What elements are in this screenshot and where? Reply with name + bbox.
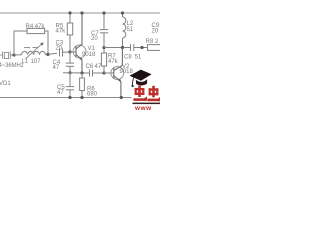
logo underline — [133, 103, 161, 105]
node C8/R8 junction — [140, 46, 143, 49]
capacitor C5 — [66, 73, 74, 98]
svg-text:C8: C8 — [124, 54, 132, 60]
svg-text:47: 47 — [95, 64, 102, 70]
resistor R8 — [148, 45, 162, 51]
svg-text:9018: 9018 — [120, 69, 134, 75]
transistor V1 9018 — [73, 45, 86, 58]
node C7/R7 junction — [102, 46, 105, 49]
node V2 base junction — [102, 71, 105, 74]
wire: R4 right corner down to node B — [45, 31, 48, 54]
resistor R4 — [27, 28, 45, 33]
capacitor C3 — [48, 49, 70, 57]
node A junction — [12, 53, 15, 56]
capacitor C4 — [66, 52, 74, 73]
wire: left riser to R4 branch — [14, 31, 27, 55]
svg-text:51: 51 — [127, 27, 134, 33]
junction dot rail/R5 — [68, 11, 71, 14]
logo character 虫 #1 — [133, 86, 147, 101]
svg-text:20: 20 — [56, 45, 63, 51]
svg-text:47: 47 — [53, 65, 60, 71]
junction dot rail/L2 — [121, 11, 124, 14]
svg-text:9018: 9018 — [82, 52, 96, 58]
svg-text:VD1: VD1 — [0, 81, 11, 87]
svg-text:47k: 47k — [35, 24, 46, 30]
node B junction — [46, 53, 49, 56]
svg-text:47k: 47k — [56, 28, 67, 34]
watermark logo background — [132, 75, 161, 111]
svg-text:51: 51 — [135, 54, 142, 60]
transistor V2 9018 — [104, 72, 114, 74]
wire: emitter row — [63, 72, 90, 74]
resistor R5 — [67, 13, 72, 52]
capacitor C6 — [90, 70, 105, 77]
svg-text:R8: R8 — [146, 39, 154, 45]
node collector/L2/C8 junction — [121, 46, 124, 49]
node emitter junction — [80, 71, 83, 74]
capacitor C8 — [131, 44, 148, 51]
junction dot R6/ground — [80, 96, 83, 99]
svg-text:R4: R4 — [26, 24, 34, 30]
resistor R6 — [80, 73, 85, 98]
capacitor C7 — [100, 13, 108, 48]
crystal 4~36MHz — [0, 51, 14, 58]
L1 dashed core — [24, 47, 39, 49]
svg-text:L1: L1 — [22, 59, 29, 65]
wire: +V top rail — [0, 12, 160, 14]
logo graduation cap — [130, 70, 152, 81]
inductor L1 (adjustable) — [14, 51, 48, 55]
wire: output row y=47.5 — [104, 47, 131, 49]
junction dot rail/C7 — [102, 11, 105, 14]
svg-text:C6: C6 — [86, 64, 94, 70]
resistor R7 — [101, 48, 106, 74]
junction dot emitter/ground — [120, 96, 123, 99]
svg-text:680: 680 — [87, 92, 98, 98]
junction dot C5/ground — [68, 96, 71, 99]
svg-text:20: 20 — [152, 29, 159, 35]
logo character 虫 #2 — [147, 86, 160, 101]
svg-text:47k: 47k — [108, 59, 119, 65]
svg-text:4~36MHz: 4~36MHz — [0, 63, 24, 69]
inductor L2 — [123, 13, 126, 48]
svg-text:20: 20 — [91, 36, 98, 42]
svg-text:47: 47 — [57, 90, 64, 96]
node C4/C5 mid junction — [68, 71, 71, 74]
wire: base lead V1 — [70, 51, 76, 53]
L1 adjust arrow — [26, 44, 43, 59]
junction dot rail/collector — [80, 11, 83, 14]
node base junction — [68, 50, 71, 53]
svg-text:www: www — [134, 105, 152, 110]
svg-text:107: 107 — [31, 59, 42, 65]
ground rail — [0, 97, 132, 99]
